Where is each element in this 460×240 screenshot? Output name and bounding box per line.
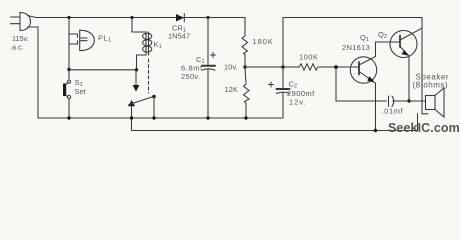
label 10v xyxy=(224,63,238,72)
label 115v a.c. xyxy=(12,34,29,52)
label CR1 1N547 xyxy=(168,24,190,41)
svg-text:K1: K1 xyxy=(154,40,162,50)
node dot relay contact top xyxy=(135,68,138,71)
wire top rail right xyxy=(283,18,428,114)
svg-text:Q2: Q2 xyxy=(378,30,387,40)
plus sign C2 xyxy=(269,82,274,87)
svg-text:(8 ohms): (8 ohms) xyxy=(413,81,449,90)
speaker SP (8 ohms) xyxy=(426,88,445,117)
node dot K1 top xyxy=(130,16,133,19)
svg-text:180K: 180K xyxy=(253,37,274,46)
label K1 xyxy=(154,40,162,50)
label .01mf xyxy=(382,107,404,116)
wire 100K to Q1 base xyxy=(318,66,359,68)
wire feedback drop xyxy=(336,67,387,101)
plus sign C1 xyxy=(211,53,216,58)
svg-text:2N1613: 2N1613 xyxy=(342,43,370,52)
svg-text:1N547: 1N547 xyxy=(168,32,190,41)
labels C1 values xyxy=(181,55,205,81)
socket PL1 xyxy=(80,30,95,50)
svg-text:SeekIC.com: SeekIC.com xyxy=(388,121,460,135)
svg-text:Q1: Q1 xyxy=(360,33,369,43)
svg-text:10v.: 10v. xyxy=(224,63,238,72)
node dot emitter speaker xyxy=(407,99,410,102)
svg-text:.01mf: .01mf xyxy=(382,107,404,116)
node dot PL1 top xyxy=(67,16,70,19)
wire Q1 emitter to ground rail xyxy=(375,83,377,131)
svg-text:Set: Set xyxy=(75,87,87,96)
resistor 180K xyxy=(242,18,248,68)
labels Q1 2N1613 xyxy=(342,33,370,52)
node dot S1 top xyxy=(67,68,70,71)
relay mechanical dashed link xyxy=(148,59,150,93)
wire top rail xyxy=(28,16,246,18)
node dot Q1 base feedback xyxy=(334,65,338,69)
AC plug P1 xyxy=(11,13,31,31)
wire S1 to relay contact xyxy=(69,69,137,71)
capacitor .01mf xyxy=(389,96,410,107)
wire speaker feed xyxy=(409,100,426,102)
resistor 100K xyxy=(299,64,318,70)
transistor Q1 xyxy=(350,57,376,84)
junction dot rail2 Q1 emitter xyxy=(374,129,377,132)
node dot C1 top xyxy=(206,16,209,19)
wire Q2 emitter drop xyxy=(408,56,410,101)
label 12K xyxy=(225,85,238,94)
ground rail 1 xyxy=(38,117,283,119)
ground rail 2 xyxy=(132,114,418,131)
wire Q1 collector to Q2 base xyxy=(376,42,401,57)
label Q2 xyxy=(378,30,387,40)
labels C2 values xyxy=(287,80,315,107)
diode CR1 xyxy=(176,14,184,22)
plug prongs into PL1 xyxy=(69,34,78,44)
label 100K xyxy=(299,53,318,62)
label Speaker (8 ohms) xyxy=(413,73,450,90)
svg-text:12K: 12K xyxy=(225,85,238,94)
node dot divider xyxy=(243,65,246,68)
junction dots rail1 xyxy=(67,116,70,119)
svg-text:12v.: 12v. xyxy=(289,98,307,107)
wire divider node to 100K xyxy=(245,66,299,68)
label 180K xyxy=(253,37,274,46)
capacitor C1 xyxy=(202,18,215,119)
svg-text:100K: 100K xyxy=(299,53,318,62)
wire PL1/S1 vertical xyxy=(68,18,70,70)
label PL1 xyxy=(98,34,112,44)
svg-text:a.c.: a.c. xyxy=(12,43,24,52)
switch S1 Set xyxy=(63,70,71,119)
svg-text:C2: C2 xyxy=(289,80,298,90)
relay coil K1 xyxy=(132,18,152,70)
capacitor C2 xyxy=(277,67,290,118)
resistor 12K xyxy=(244,67,250,118)
label S1 Set xyxy=(75,78,87,96)
node dot at C2 top xyxy=(281,65,284,68)
relay moving contact arrow and armature xyxy=(128,95,156,131)
svg-text:250v.: 250v. xyxy=(181,72,200,81)
transistor Q2 xyxy=(390,28,422,57)
wire plug bottom to left drop xyxy=(28,27,39,118)
relay fixed contact arrow xyxy=(133,70,140,92)
svg-text:PL1: PL1 xyxy=(98,34,112,44)
